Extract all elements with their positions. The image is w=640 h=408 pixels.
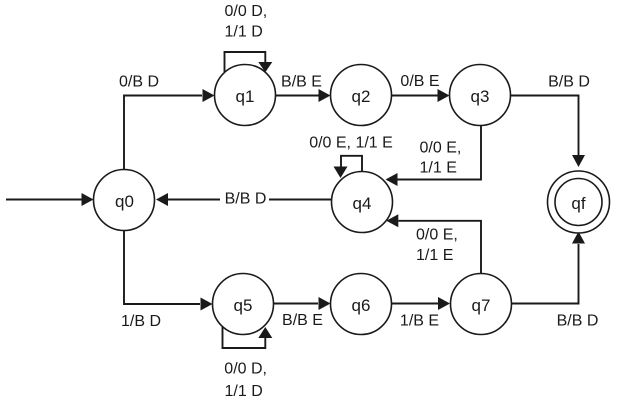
state q5 (213, 274, 274, 335)
arrowhead q0 to q1 (203, 89, 215, 102)
svg-text:0/B D: 0/B D (119, 74, 159, 91)
wire q0 to q5 (124, 230, 200, 304)
wire q6 to q7 (392, 303, 439, 305)
svg-text:1/B E: 1/B E (400, 313, 439, 330)
svg-text:1/1 D: 1/1 D (225, 383, 263, 400)
wire q0 to q1 (124, 96, 202, 171)
arrowhead q3 to q4 (386, 173, 398, 186)
svg-text:1/1 E: 1/1 E (420, 160, 457, 177)
state q7 (451, 274, 512, 335)
svg-text:1/B D: 1/B D (121, 313, 161, 330)
wire start arrow into q0 (6, 199, 82, 201)
svg-text:B/B D: B/B D (557, 313, 599, 330)
arrowhead q1 to q2 (319, 89, 331, 102)
state qf (accepting, double circle) (548, 171, 610, 233)
state q3 (450, 65, 511, 126)
svg-text:q6: q6 (352, 296, 371, 315)
svg-text:q2: q2 (352, 87, 371, 106)
svg-text:q5: q5 (234, 296, 253, 315)
svg-text:1/1 D: 1/1 D (225, 24, 263, 41)
svg-text:1/1 E: 1/1 E (416, 247, 453, 264)
wire q4 to q0 (segment left of label) (168, 199, 220, 201)
svg-text:q0: q0 (115, 192, 134, 211)
wire q5 self-loop (223, 327, 266, 348)
wire q4 self-loop (341, 156, 362, 171)
state q6 (331, 274, 392, 335)
wire q1 to q2 (276, 95, 319, 97)
arrowhead q6 to q7 (438, 297, 450, 310)
arrowhead q5 to q6 (319, 297, 331, 310)
state q4 (332, 172, 393, 233)
arrowhead q7 to q4 (386, 214, 398, 227)
svg-text:0/0 E,: 0/0 E, (420, 139, 462, 156)
arrowhead q4 self-loop (334, 167, 348, 179)
wire q7 to q4 (398, 221, 481, 274)
wire q3 to q4 (398, 126, 482, 180)
svg-text:qf: qf (571, 194, 585, 213)
arrowhead q4 to q0 (156, 193, 168, 206)
wire q7 to qf (512, 244, 579, 304)
arrowhead q3 to qf (572, 155, 585, 167)
svg-text:B/B E: B/B E (281, 74, 322, 91)
svg-text:q3: q3 (471, 87, 490, 106)
arrowhead q2 to q3 (438, 89, 450, 102)
svg-text:0/0 E, 1/1 E: 0/0 E, 1/1 E (309, 135, 393, 152)
wire q5 to q6 (274, 303, 319, 305)
svg-text:0/0 D,: 0/0 D, (225, 3, 268, 20)
svg-text:B/B D: B/B D (225, 191, 267, 208)
arrowhead start into q0 (82, 193, 94, 206)
svg-text:q1: q1 (236, 87, 255, 106)
arrowhead q0 to q5 (201, 298, 213, 311)
arrowhead q1 self-loop (258, 62, 272, 72)
svg-text:B/B D: B/B D (548, 74, 590, 91)
wire q2 to q3 (392, 95, 438, 97)
wire q1 self-loop (225, 52, 266, 72)
svg-text:B/B E: B/B E (282, 312, 323, 329)
wire q3 to qf (511, 96, 579, 156)
state q0 (94, 170, 155, 231)
svg-text:q4: q4 (353, 194, 372, 213)
svg-text:0/0 E,: 0/0 E, (416, 227, 458, 244)
state q1 (215, 65, 276, 126)
svg-text:0/B E: 0/B E (400, 73, 439, 90)
arrowhead q7 to qf (572, 232, 585, 244)
wire q4 to q0 (segment right of label) (269, 199, 332, 201)
svg-text:0/0 D,: 0/0 D, (224, 361, 267, 378)
svg-text:q7: q7 (472, 296, 491, 315)
arrowhead q5 self-loop (258, 327, 272, 338)
state q2 (331, 65, 392, 126)
